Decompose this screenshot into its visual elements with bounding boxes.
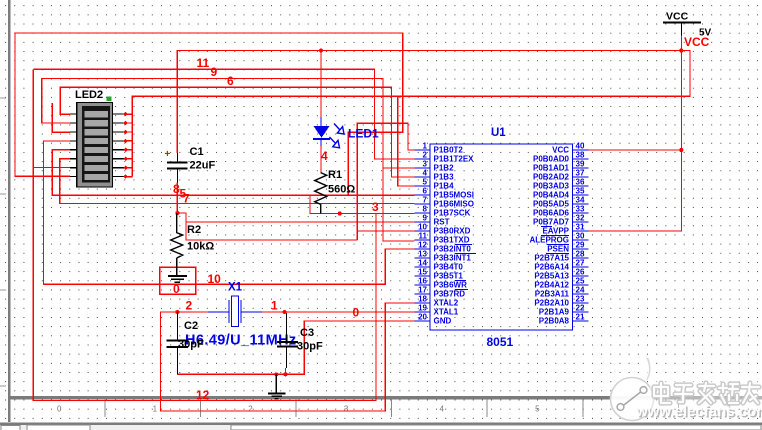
LED2 bargraph display: [77, 102, 113, 187]
status strip background: [0, 425, 762, 430]
svg-text:34: 34: [576, 196, 585, 205]
svg-text:16: 16: [418, 277, 427, 286]
ground below crystal caps: [268, 374, 286, 399]
svg-text:33: 33: [576, 205, 585, 214]
svg-text:VCC: VCC: [666, 11, 689, 23]
LED2 pin stubs right with red ends: [113, 112, 133, 179]
wire branch to U1 pin10: [357, 230, 414, 232]
wire LED2 pin4 to U1 pin12 via bottom: [44, 141, 415, 284]
wire net P1.0: LED2 pin8 around top to mid bundle: [15, 33, 403, 195]
junction VCC stem on anode rail: [679, 49, 683, 53]
svg-text:26: 26: [576, 268, 585, 277]
left margin ruler ticks: [0, 46, 6, 386]
wire branch to R1 bottom: [310, 195, 414, 213]
svg-text:R1: R1: [328, 169, 342, 181]
svg-text:11: 11: [197, 56, 210, 70]
svg-text:7: 7: [183, 192, 190, 206]
red box around ground 1: [160, 267, 196, 294]
svg-text:13: 13: [418, 250, 427, 259]
capacitor C3: [277, 313, 298, 368]
svg-text:EAVPP: EAVPP: [542, 227, 569, 236]
svg-text:P0B6AD6: P0B6AD6: [533, 209, 570, 218]
svg-text:ALEPROG: ALEPROG: [529, 236, 569, 245]
svg-text:4: 4: [321, 149, 328, 163]
U1 left pin name underlines: [455, 245, 476, 290]
sheet bottom border bar: [8, 396, 762, 399]
svg-text:19: 19: [418, 304, 427, 313]
svg-text:P3B3INT1: P3B3INT1: [434, 254, 472, 263]
svg-text:37: 37: [576, 169, 585, 178]
op chip U1 8051 body: [430, 144, 573, 330]
svg-text:36: 36: [576, 178, 585, 187]
watermark chinese glyph blobs: [650, 381, 762, 409]
svg-text:P3B4T0: P3B4T0: [434, 263, 464, 272]
svg-text:P1B6MISO: P1B6MISO: [434, 200, 474, 209]
svg-text:12: 12: [196, 388, 210, 402]
svg-text:P2B3A11: P2B3A11: [535, 290, 570, 299]
junction crystal left / C2: [175, 310, 179, 314]
wire net 8: C1 bottom / R2 top to U1 pin9 RST: [177, 182, 414, 222]
svg-text:1: 1: [271, 299, 278, 313]
svg-text:P3B1TXD: P3B1TXD: [434, 236, 470, 245]
svg-text:10: 10: [208, 272, 222, 286]
svg-text:P2B4A12: P2B4A12: [534, 281, 569, 290]
svg-text:P0B0AD0: P0B0AD0: [533, 155, 570, 164]
svg-text:4: 4: [423, 169, 428, 178]
junction crystal right / C3: [283, 310, 287, 314]
svg-text:P2B1A9: P2B1A9: [539, 308, 570, 317]
svg-text:32: 32: [576, 214, 585, 223]
svg-text:9: 9: [423, 214, 428, 223]
svg-text:PSEN: PSEN: [547, 245, 569, 254]
svg-text:R2: R2: [187, 224, 201, 236]
svg-text:P2B6A14: P2B6A14: [534, 263, 569, 272]
svg-text:3: 3: [372, 200, 379, 214]
svg-text:22uF: 22uF: [190, 160, 216, 172]
svg-text:25: 25: [576, 277, 585, 286]
wire VCC rail to U1 pin40 and pin31: [588, 36, 681, 232]
resistor R2: [171, 213, 183, 258]
svg-text:23: 23: [576, 295, 585, 304]
svg-text:10: 10: [418, 223, 427, 232]
wire C1 top up to anode rail: [177, 51, 320, 154]
svg-text:0: 0: [353, 306, 360, 320]
wire LED1 cathode to R1 top: [320, 144, 322, 173]
svg-text:P3B2INT0: P3B2INT0: [434, 245, 472, 254]
diode LED1: [313, 117, 330, 146]
wire net 9: LED2 pin2 to U1 pin3: [42, 79, 415, 169]
window second bottom bar: [0, 422, 762, 425]
svg-text:2: 2: [186, 299, 193, 313]
svg-text:P0B5AD5: P0B5AD5: [533, 200, 570, 209]
svg-text:P1B7SCK: P1B7SCK: [434, 209, 471, 218]
junction R1 bottom: [338, 212, 342, 216]
svg-text:40: 40: [576, 142, 585, 151]
svg-text:P3B6WR: P3B6WR: [434, 281, 468, 290]
svg-text:P1B0T2: P1B0T2: [434, 146, 464, 155]
junction C1/R2: [175, 211, 179, 215]
svg-text:XTAL2: XTAL2: [434, 299, 459, 308]
svg-text:30pF: 30pF: [178, 339, 204, 351]
svg-text:38: 38: [576, 151, 585, 160]
svg-text:P1B5MOSI: P1B5MOSI: [434, 191, 474, 200]
svg-text:P0B1AD1: P0B1AD1: [533, 164, 570, 173]
svg-text:VCC: VCC: [552, 146, 569, 155]
svg-text:P0B4AD4: P0B4AD4: [533, 191, 570, 200]
resistor R1: [315, 173, 327, 214]
capacitor C2: [167, 312, 189, 374]
sheet bottom ruler band numbers: [57, 399, 731, 417]
svg-text:X1: X1: [228, 282, 243, 294]
svg-text:8051: 8051: [487, 335, 514, 349]
LED2 pin stubs left: [70, 114, 77, 177]
svg-text:27: 27: [576, 259, 585, 268]
wire net 7: LED2 pin6 to U1 pin7: [60, 159, 415, 204]
svg-text:10kΩ: 10kΩ: [187, 241, 214, 253]
svg-text:GND: GND: [434, 317, 452, 326]
svg-text:2: 2: [248, 405, 253, 414]
svg-text:0: 0: [57, 405, 62, 414]
svg-text:560Ω: 560Ω: [328, 184, 355, 196]
svg-text:8: 8: [423, 205, 428, 214]
svg-text:C3: C3: [300, 327, 314, 339]
junction ground2: [274, 372, 278, 376]
status strip box 2: [27, 425, 90, 430]
svg-text:P2B2A10: P2B2A10: [534, 299, 569, 308]
wire U1 pin5 branch: [398, 96, 414, 186]
junction VCC pin40: [679, 148, 683, 152]
svg-text:C2: C2: [184, 320, 198, 332]
LED2 green mark: [107, 97, 112, 102]
svg-text:31: 31: [576, 223, 585, 232]
wire net 12: U1 pin18 XTAL2 loop to crystal left: [161, 303, 415, 411]
junction C3 bottom: [284, 372, 288, 376]
svg-text:P0B3AD3: P0B3AD3: [533, 182, 570, 191]
ground below R2: [168, 258, 187, 282]
U1 left pins: [414, 142, 474, 326]
wire net 0: crystal right to U1 pin19 XTAL1: [262, 311, 414, 313]
svg-text:30: 30: [576, 232, 585, 241]
svg-text:P1B2: P1B2: [434, 164, 455, 173]
junction LED1 top: [319, 49, 323, 53]
wire mid vertical riser to U1 pin1: [357, 123, 414, 240]
svg-text:1: 1: [423, 142, 428, 151]
wire branch to U1 pin11: [383, 168, 414, 241]
sheet left border bar: [8, 0, 11, 422]
svg-text:2: 2: [423, 151, 428, 160]
svg-text:3: 3: [423, 160, 428, 169]
wire long left vertical to bottom loop: [33, 69, 376, 400]
status strip box 1: [1, 426, 20, 430]
svg-text:12: 12: [418, 241, 427, 250]
svg-text:29: 29: [576, 241, 585, 250]
wire GND net: C2 bottom to ground2 and C3 to U1 pin20: [177, 321, 414, 374]
svg-text:XTAL1: XTAL1: [434, 308, 459, 317]
capacitor C1: [167, 153, 188, 182]
svg-text:U1: U1: [491, 127, 506, 139]
svg-text:5: 5: [535, 405, 540, 414]
svg-text:P2B5A13: P2B5A13: [534, 272, 569, 281]
svg-text:P1B3: P1B3: [434, 173, 455, 182]
svg-text:28: 28: [576, 250, 585, 259]
svg-text:P3B7RD: P3B7RD: [434, 290, 466, 299]
svg-text:21: 21: [576, 313, 585, 322]
wire LED2 pin3 stub up: [52, 103, 70, 132]
wire LED2 right bus to LED1 anode and top loop: [132, 51, 690, 177]
svg-text:30pF: 30pF: [297, 341, 323, 353]
svg-text:39: 39: [576, 160, 585, 169]
svg-text:P1B1T2EX: P1B1T2EX: [434, 155, 475, 164]
svg-text:17: 17: [418, 286, 427, 295]
svg-text:LED2: LED2: [75, 89, 103, 101]
svg-text:P3B0RXD: P3B0RXD: [434, 227, 471, 236]
svg-text:3: 3: [344, 405, 349, 414]
svg-text:1: 1: [153, 405, 158, 414]
svg-text:P2B0A8: P2B0A8: [539, 317, 570, 326]
svg-text:9: 9: [211, 65, 218, 79]
svg-text:RST: RST: [434, 218, 450, 227]
watermark logo circle: [611, 358, 654, 421]
svg-text:4: 4: [440, 405, 445, 414]
svg-text:20: 20: [418, 313, 427, 322]
svg-text:15: 15: [418, 268, 427, 277]
crystal X1: [208, 296, 262, 327]
svg-text:5: 5: [423, 178, 428, 187]
svg-text:14: 14: [418, 259, 427, 268]
wire branch down from RST jog to net 240: [186, 222, 357, 240]
svg-text:6: 6: [227, 74, 234, 88]
power VCC symbol: [663, 11, 701, 36]
svg-text:C1: C1: [190, 146, 204, 158]
wire net 6: LED2 pin1 to U1 pin4: [60, 87, 414, 177]
svg-text:+: +: [165, 149, 171, 160]
svg-text:7: 7: [423, 196, 428, 205]
svg-text:11: 11: [419, 232, 428, 241]
status strip box 3: [231, 425, 761, 430]
svg-text:18: 18: [418, 295, 427, 304]
svg-text:P1B4: P1B4: [434, 182, 455, 191]
svg-text:6: 6: [423, 187, 428, 196]
svg-text:P2B7A15: P2B7A15: [534, 254, 569, 263]
svg-text:24: 24: [576, 286, 585, 295]
svg-text:www.elecfans.com: www.elecfans.com: [635, 403, 762, 420]
U1 right pin name underlines: [541, 227, 569, 254]
svg-text:P0B7AD7: P0B7AD7: [533, 218, 570, 227]
svg-text:LED1: LED1: [348, 127, 379, 141]
svg-text:35: 35: [576, 187, 585, 196]
LED1 arrows: [330, 124, 345, 148]
svg-text:P3B5T1: P3B5T1: [434, 272, 464, 281]
svg-text:5V: 5V: [699, 28, 712, 39]
red stub C3 bottom: [285, 368, 287, 374]
svg-text:0: 0: [173, 282, 180, 296]
svg-text:P0B2AD2: P0B2AD2: [533, 173, 570, 182]
wire LED2 pin7 stub to left vertical: [33, 167, 70, 169]
wire net 5: LED2 pin5 to U1 pin6: [52, 150, 414, 196]
svg-text:22: 22: [576, 304, 585, 313]
U1 right pins: [529, 142, 588, 326]
wire net 11: left nest line to U1 pin2: [33, 69, 414, 159]
